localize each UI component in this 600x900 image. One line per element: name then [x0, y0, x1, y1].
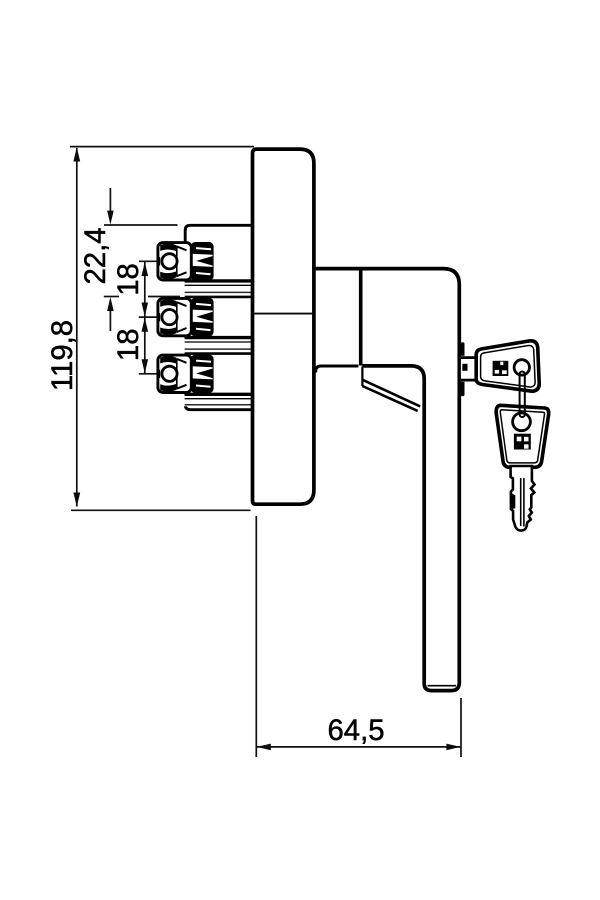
svg-text:18: 18: [112, 263, 145, 296]
svg-text:119,8: 119,8: [46, 320, 79, 391]
svg-text:18: 18: [112, 329, 145, 362]
svg-text:64,5: 64,5: [327, 714, 384, 747]
svg-text:22,4: 22,4: [79, 227, 112, 284]
